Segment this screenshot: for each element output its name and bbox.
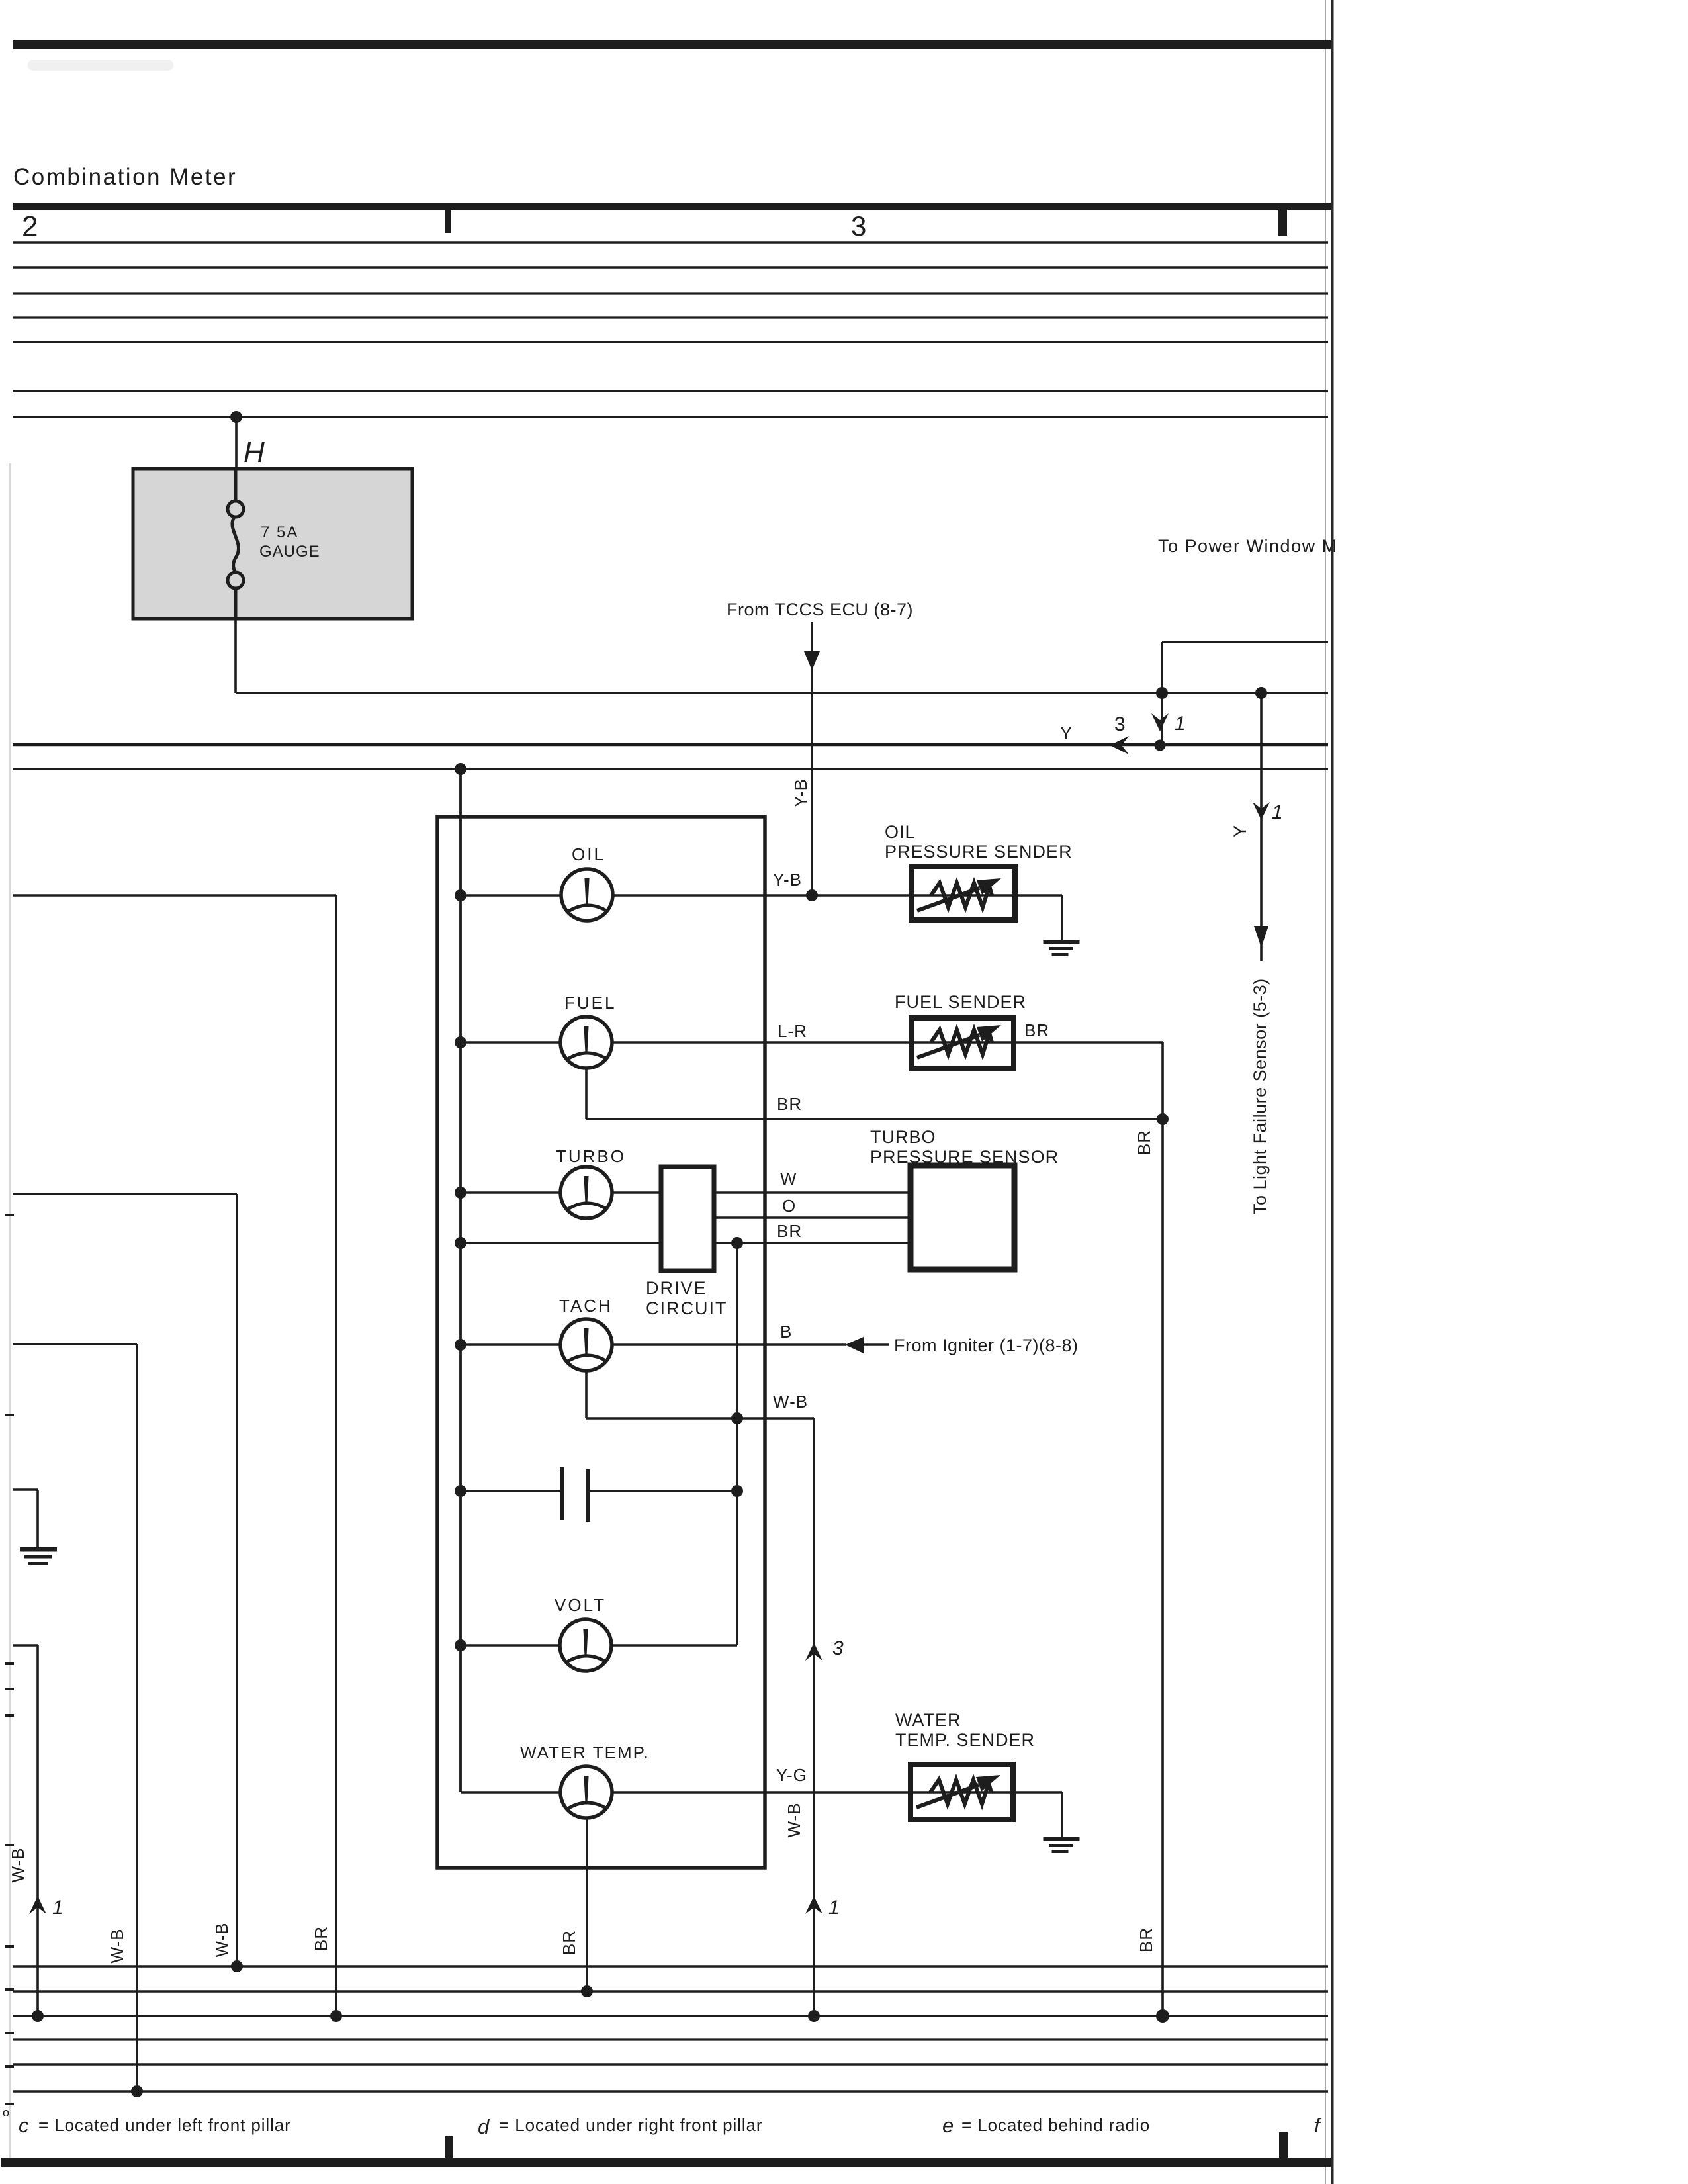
gauge feed wire across xyxy=(236,692,1328,694)
top bus wire 2 xyxy=(13,266,1328,268)
left edge wire stub 6 xyxy=(5,1844,14,1846)
top divider bar xyxy=(13,40,1331,49)
svg-text:TURBO: TURBO xyxy=(556,1146,626,1166)
bottom divider bar xyxy=(1,2158,1331,2167)
connector chevron 3 (left) xyxy=(1110,736,1129,754)
connector chevron 3 (up) on W-B xyxy=(805,1643,822,1661)
water temp sender box xyxy=(911,1764,1013,1819)
svg-text:o: o xyxy=(3,2106,9,2119)
svg-text:BR: BR xyxy=(1024,1021,1049,1040)
gauge WATER TEMP xyxy=(560,1766,612,1818)
fuel sender return wire down xyxy=(1161,1042,1164,2016)
svg-text:Y-B: Y-B xyxy=(791,778,811,807)
svg-text:CIRCUIT: CIRCUIT xyxy=(646,1298,728,1318)
svg-text:TACH: TACH xyxy=(559,1296,613,1316)
junction BR x1757 / bus 3 xyxy=(1156,2009,1169,2023)
bottom bus wire 4 xyxy=(13,2038,1328,2040)
left edge wire stub 1 xyxy=(5,1214,14,1216)
svg-text:3: 3 xyxy=(1114,713,1126,735)
bottom bus wire 2 xyxy=(13,1990,1328,1992)
svg-text:c: c xyxy=(19,2114,29,2137)
left edge wire stub 8 xyxy=(5,1988,14,1991)
junction W-B x207 / bus 6 xyxy=(131,2085,143,2097)
svg-text:OIL: OIL xyxy=(885,822,916,842)
igniter arrow stub xyxy=(864,1343,889,1345)
junction capacitor / W-B drop xyxy=(731,1485,743,1497)
svg-text:To Light Failure Sensor (5-3): To Light Failure Sensor (5-3) xyxy=(1250,978,1270,1214)
arrow from TCCS ECU xyxy=(804,651,820,670)
junction gauge feed / light failure branch xyxy=(1255,687,1267,699)
svg-text:L-R: L-R xyxy=(777,1021,807,1041)
capacitor right wire xyxy=(590,1490,737,1492)
fuse box 7.5A GAUGE xyxy=(133,469,412,619)
svg-text:VOLT: VOLT xyxy=(555,1595,606,1615)
svg-text:1: 1 xyxy=(1272,801,1283,823)
svg-text:From TCCS ECU (8-7): From TCCS ECU (8-7) xyxy=(727,600,913,619)
svg-text:W-B: W-B xyxy=(107,1928,127,1963)
gauge FUEL xyxy=(560,1017,612,1068)
svg-text:2: 2 xyxy=(22,210,38,243)
water temp gauge wire Y-G xyxy=(461,1791,1062,1793)
oil pressure sender resistor xyxy=(917,878,1001,911)
wire to power window motor xyxy=(1162,642,1328,693)
svg-text:Y-B: Y-B xyxy=(773,870,802,889)
left edge wire stub 9 xyxy=(5,2032,14,2034)
fuel gauge wire xyxy=(461,1041,1163,1043)
junction BR row xyxy=(455,1237,466,1249)
top bus wire 7 xyxy=(13,416,1328,418)
section divider bar xyxy=(13,203,1331,210)
oil sender ground wire xyxy=(1061,895,1063,940)
junction on bus 7 for fuse H xyxy=(230,411,242,423)
wire bus to fuse xyxy=(235,417,238,471)
wire from TCCS ECU xyxy=(811,622,813,895)
wire junction down to connector ring xyxy=(1161,693,1163,743)
svg-text:GAUGE: GAUGE xyxy=(259,543,320,561)
junction turbo row xyxy=(455,1187,466,1199)
wire W-B (turbo row to bottom) xyxy=(13,1194,237,1966)
connector chevron 1 (down) on Y xyxy=(1253,802,1270,820)
svg-text:TEMP. SENDER: TEMP. SENDER xyxy=(895,1730,1035,1750)
water sender ground wire xyxy=(1061,1792,1063,1837)
svg-text:f: f xyxy=(1314,2114,1322,2137)
wire W-B (volt row to bottom) xyxy=(13,1645,38,2016)
wire BR (oil row to bottom) xyxy=(13,895,336,2016)
svg-text:W-B: W-B xyxy=(773,1392,808,1412)
svg-text:1: 1 xyxy=(1175,713,1186,735)
fuel sender box xyxy=(911,1018,1014,1069)
ground (water temp sender) xyxy=(1044,1837,1080,1853)
svg-text:DRIVE: DRIVE xyxy=(646,1278,707,1298)
junction W-B x57 / bus 3 xyxy=(32,2010,44,2022)
fuel gauge BR wire xyxy=(586,1118,1163,1120)
svg-text:Combination Meter: Combination Meter xyxy=(13,164,237,190)
left edge wire stub 4 xyxy=(5,1688,14,1690)
connector chevron 1 (down) xyxy=(1151,713,1169,731)
arrow from igniter xyxy=(845,1337,864,1353)
gauge TACH xyxy=(560,1319,612,1371)
svg-text:BR: BR xyxy=(1136,1927,1156,1952)
left edge wire stub 7 xyxy=(5,1945,14,1948)
bottom bus wire 3 xyxy=(13,2015,1328,2017)
capacitor C xyxy=(560,1467,590,1522)
junction capacitor row xyxy=(455,1485,466,1497)
oil gauge wire xyxy=(461,894,1062,896)
top bus wire 5 xyxy=(13,341,1328,343)
left edge wire stub 10 xyxy=(5,2065,14,2068)
junction oil row xyxy=(455,889,466,901)
page section border right (light) xyxy=(1325,0,1326,2184)
page left edge line xyxy=(9,463,11,2164)
svg-text:B: B xyxy=(780,1322,791,1342)
junction tach row xyxy=(455,1339,466,1351)
page section border right (dark) xyxy=(1331,0,1334,2184)
bottom bar tick A xyxy=(445,2136,453,2158)
junction Y-B / oil wire xyxy=(806,889,818,901)
svg-text:WATER: WATER xyxy=(895,1710,961,1730)
O wire xyxy=(714,1216,911,1218)
meter internal feed bus xyxy=(459,769,462,1792)
left edge wire stub 3 xyxy=(5,1662,14,1665)
svg-text:= Located behind radio: = Located behind radio xyxy=(961,2115,1150,2135)
tach gauge bottom stub xyxy=(585,1371,588,1418)
tach gauge wire B xyxy=(461,1343,846,1345)
svg-text:7 5A: 7 5A xyxy=(261,523,298,541)
W-B wire from tach xyxy=(586,1417,814,1419)
wire to body ground xyxy=(13,1490,38,1547)
combination meter box xyxy=(437,817,765,1868)
water temp sender resistor xyxy=(916,1775,1000,1807)
fuel gauge bottom stub xyxy=(585,1068,588,1119)
bottom bar tick B xyxy=(1279,2132,1288,2158)
junction W-B x1230 / bus 3 xyxy=(808,2010,820,2022)
ground (oil pressure sender) xyxy=(1044,940,1080,956)
bottom bus wire 6 xyxy=(13,2090,1328,2093)
left edge wire stub 11 xyxy=(5,2103,14,2105)
svg-text:d: d xyxy=(478,2115,490,2138)
arrow to light failure sensor xyxy=(1254,926,1268,948)
fuel sender resistor xyxy=(917,1025,1001,1058)
turbo gauge / W wire xyxy=(461,1191,911,1193)
left edge wire stub 2 xyxy=(5,1414,14,1416)
top bus wire 3 xyxy=(13,292,1328,294)
svg-text:FUEL SENDER: FUEL SENDER xyxy=(895,992,1026,1012)
junction W-B x358 / bus 1 xyxy=(231,1960,243,1972)
svg-text:BR: BR xyxy=(1134,1130,1154,1155)
svg-text:O: O xyxy=(782,1196,795,1216)
top bus wire 6 xyxy=(13,390,1328,392)
junction BR x887 / bus 2 xyxy=(581,1985,593,1997)
connector ring xyxy=(1155,740,1166,751)
bus wire Y (line 8) xyxy=(13,743,1328,746)
svg-text:OIL: OIL xyxy=(572,844,605,864)
svg-text:= Located under right front pi: = Located under right front pillar xyxy=(499,2115,762,2135)
gauge VOLT xyxy=(560,1619,611,1671)
connector chevron 1 (up, left W-B) xyxy=(29,1896,46,1914)
gauge OIL xyxy=(561,869,613,921)
junction BR x508 / bus 3 xyxy=(330,2010,342,2022)
volt gauge wire xyxy=(461,1644,737,1646)
svg-text:W: W xyxy=(780,1169,797,1189)
water temp gauge bottom stub xyxy=(586,1818,588,1991)
oil pressure sender box xyxy=(911,866,1015,920)
left edge wire stub 5 xyxy=(5,1714,14,1717)
svg-text:BR: BR xyxy=(311,1926,331,1951)
svg-text:BR: BR xyxy=(777,1094,802,1114)
svg-text:BR: BR xyxy=(559,1930,579,1955)
section bar tick B xyxy=(1278,210,1287,236)
junction W-B / drop xyxy=(731,1412,743,1424)
bottom bus wire 1 xyxy=(13,1965,1328,1967)
section bar tick A xyxy=(445,210,451,233)
svg-text:3: 3 xyxy=(832,1637,844,1659)
svg-text:FUEL: FUEL xyxy=(564,993,616,1013)
top bus wire 4 xyxy=(13,316,1328,318)
svg-text:BR: BR xyxy=(777,1221,802,1241)
wire W-B (tach row to bottom) xyxy=(13,1344,137,2091)
svg-text:1: 1 xyxy=(52,1897,64,1919)
svg-text:Y-G: Y-G xyxy=(776,1765,807,1785)
svg-text:3: 3 xyxy=(851,210,866,242)
junction fuel row xyxy=(455,1036,466,1048)
capacitor left wire xyxy=(461,1490,560,1492)
svg-text:Y: Y xyxy=(1060,723,1072,743)
turbo pressure sensor box xyxy=(911,1165,1014,1269)
drive circuit box xyxy=(661,1167,714,1271)
wire fuse down xyxy=(234,619,237,693)
svg-text:e: e xyxy=(942,2114,954,2137)
wire Y to light failure sensor xyxy=(1260,693,1263,961)
junction bus line 9 / meter feed xyxy=(455,763,466,775)
junction gauge feed / power window xyxy=(1156,687,1168,699)
junction volt row xyxy=(455,1639,466,1651)
svg-text:PRESSURE SENDER: PRESSURE SENDER xyxy=(885,842,1073,862)
junction BR / fuel sender return xyxy=(1157,1113,1169,1125)
svg-text:WATER TEMP.: WATER TEMP. xyxy=(520,1743,650,1762)
junction BR / W-B drop xyxy=(731,1237,743,1249)
W-B wire down xyxy=(813,1418,815,2016)
svg-text:H: H xyxy=(244,436,265,469)
svg-text:Y: Y xyxy=(1230,825,1250,837)
bus wire (line 9) xyxy=(13,768,1328,770)
svg-text:To Power Window M: To Power Window M xyxy=(1158,536,1338,556)
BR row wire xyxy=(461,1242,911,1244)
svg-text:From Igniter (1-7)(8-8): From Igniter (1-7)(8-8) xyxy=(894,1336,1079,1355)
gauge TURBO xyxy=(560,1167,612,1218)
svg-text:W-B: W-B xyxy=(784,1802,804,1837)
W-B drop wire xyxy=(736,1243,738,1645)
faded stamp top-left xyxy=(28,60,173,71)
top bus wire 1 xyxy=(13,241,1328,243)
svg-text:TURBO: TURBO xyxy=(870,1127,936,1147)
fuse element xyxy=(228,469,244,619)
svg-text:W-B: W-B xyxy=(8,1847,28,1882)
bottom bus wire 5 xyxy=(13,2063,1328,2065)
connector chevron 1 (up, right W-B) xyxy=(805,1896,822,1914)
svg-text:W-B: W-B xyxy=(212,1922,232,1957)
ground (left body ground) xyxy=(20,1547,57,1565)
svg-text:= Located under left front pil: = Located under left front pillar xyxy=(38,2115,291,2135)
svg-text:1: 1 xyxy=(828,1897,840,1919)
